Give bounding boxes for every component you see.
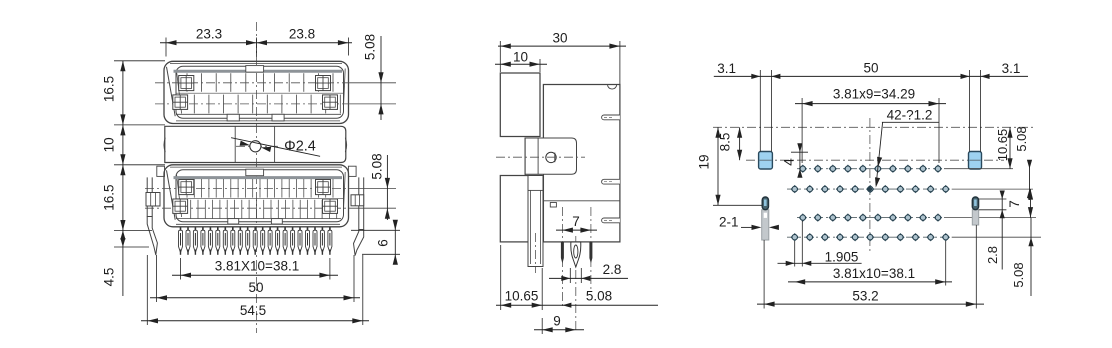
svg-text:2.8: 2.8: [985, 246, 1000, 264]
right bracket crimp block: [351, 195, 364, 206]
dim 7 line: [556, 229, 597, 231]
svg-text:10.65: 10.65: [505, 289, 539, 304]
bottom shell ear right: [348, 166, 356, 176]
tick 4 top: [791, 151, 808, 153]
left dim column vertical line: [122, 61, 124, 296]
nut boss centerline: [496, 156, 585, 158]
dim 54.5 line: [141, 320, 369, 322]
tick 4.5 bottom: [114, 246, 149, 248]
jackscrew hole leader line: [231, 138, 320, 157]
dim 23.8 right extension line: [347, 38, 349, 56]
hole row 1 solid extension: [944, 168, 1013, 170]
plate small square detail: [550, 203, 556, 208]
hole row 2 solid extension: [952, 188, 1033, 190]
bottom shell outer bottom inner line: [176, 223, 340, 225]
svg-text:3.81x9=34.29: 3.81x9=34.29: [833, 87, 915, 102]
front leg centerline: [535, 233, 537, 273]
bottom shell latch block upper-right: [316, 180, 331, 195]
svg-text:10: 10: [102, 137, 117, 152]
top shell latch block upper-right: [316, 76, 331, 91]
tick 19 bottom: [713, 204, 762, 206]
top shell inner shroud: [176, 66, 344, 118]
top shell lower contact ticks: [193, 95, 195, 114]
bottom shell right taper edge: [343, 172, 345, 213]
svg-text:5.08: 5.08: [586, 289, 612, 304]
svg-text:4.5: 4.5: [102, 268, 117, 287]
hole row 4 centerline: [787, 236, 952, 238]
plate inner horizontal line: [543, 200, 620, 202]
middle band boss divider right: [274, 126, 276, 162]
top shell upper contact row centerline: [155, 82, 350, 84]
jackscrew D-hole: [546, 152, 556, 162]
svg-text:50: 50: [248, 280, 263, 295]
dim 10.65 right vertical: [1009, 127, 1011, 168]
hole row 3 holes: [799, 213, 807, 221]
svg-text:3.1: 3.1: [717, 61, 736, 76]
bottom shell latch block upper-left: [179, 180, 194, 195]
bottom shell left taper edge: [167, 170, 176, 219]
left mounting bracket arm: [147, 177, 152, 216]
dim 3.81x10=38.1 line: [788, 281, 952, 283]
right bracket board-lock hook: [354, 230, 364, 256]
ext leg right: [541, 268, 543, 310]
plate contact bump bottom: [602, 218, 620, 223]
dim 5.08 bottom-shell vertical line: [386, 155, 388, 220]
svg-text:5.08: 5.08: [370, 153, 385, 179]
datum hole center row2: [868, 187, 872, 191]
bottom shell latch block lower-left: [173, 199, 188, 213]
bottom shell lower contact ticks: [190, 200, 192, 219]
side view front block upper: [500, 73, 540, 137]
ext 53.2 right: [975, 225, 977, 309]
top shell outer bottom inner line: [176, 120, 340, 122]
bottom shell upper contact ticks: [186, 179, 188, 198]
svg-text:30: 30: [552, 31, 567, 46]
middle band right bulge: [345, 138, 346, 153]
footprint pad centerline: [746, 159, 1004, 161]
svg-text:23.3: 23.3: [196, 27, 222, 42]
svg-text:16.5: 16.5: [102, 184, 117, 210]
bottom shell ear left: [157, 166, 165, 176]
plate contact bump middle: [602, 179, 620, 184]
svg-text:53.2: 53.2: [852, 289, 878, 304]
top shell outer body: [164, 61, 349, 123]
dim 2.8 line: [549, 277, 628, 279]
svg-text:5.08: 5.08: [1014, 126, 1029, 151]
mounting pad right: [969, 152, 982, 170]
dim 6 vertical line: [394, 222, 396, 263]
left bracket crimp block: [146, 193, 160, 207]
tick 10/16.5 boundary: [114, 164, 165, 166]
svg-text:9: 9: [553, 314, 561, 329]
wishbone press-fit pin: [571, 242, 581, 267]
dim 3.81X10=38.1 line: [172, 274, 338, 276]
jackscrew hole circle: [250, 141, 261, 152]
svg-text:2.8: 2.8: [603, 262, 622, 277]
side view mounting plate: [543, 85, 620, 242]
bottom shell inner bottom ledge: [176, 218, 341, 220]
dim 50 line: [150, 297, 360, 299]
ext 10.65 left: [500, 245, 502, 310]
svg-text:5.08: 5.08: [363, 34, 378, 60]
side view front block lower: [500, 176, 541, 242]
pin centerline 2 wishbone: [575, 236, 577, 333]
mounting pad left: [759, 152, 773, 170]
tick 4.5 top: [114, 230, 152, 232]
ext 38.1 right: [945, 241, 947, 286]
side pin 3: [589, 242, 592, 264]
dim 5.08 top-right vertical line: [380, 36, 382, 120]
top shell latch block upper-left: [179, 76, 194, 91]
tick oval bottom: [979, 209, 1007, 211]
front leg inner lines: [530, 190, 532, 264]
bottom shell bottom tab left: [228, 219, 239, 224]
nut boss left strip: [524, 138, 526, 176]
side pin 1: [561, 242, 564, 264]
middle band boss divider left: [234, 126, 236, 162]
tick oval top: [979, 198, 1007, 200]
bottom shell inner shroud: [176, 170, 344, 222]
ext 54.5 left: [146, 255, 148, 325]
right oval pin pad: [972, 197, 978, 210]
tick 16.5 top: [114, 60, 165, 62]
svg-text:7: 7: [1007, 200, 1022, 208]
tick 16.5/10 boundary: [114, 124, 165, 126]
footprint top reference centerline: [713, 126, 1036, 128]
ext last pin: [329, 258, 331, 280]
top shell polarization notch: [246, 66, 264, 73]
ext first pin: [180, 258, 182, 280]
left pin leg phantom: [762, 210, 769, 240]
ext 9 left: [541, 318, 543, 334]
plate top corner notch arc: [608, 85, 617, 90]
dim 5.08 right-top vertical: [1029, 160, 1031, 200]
ext 50 left: [156, 255, 158, 302]
top shell upper contact ticks: [186, 73, 188, 92]
svg-text:54.5: 54.5: [240, 303, 266, 318]
bottom shell upper contact row centerline: [145, 187, 350, 189]
dim 5.08 right-bottom vertical: [1030, 218, 1032, 296]
ext 10 right: [539, 59, 541, 72]
plate contact bump top: [602, 115, 620, 120]
dim center extension line: [256, 38, 258, 57]
top shell notch side ticks: [245, 73, 247, 92]
top shell insulator shelf: [174, 70, 343, 73]
dim 9 line: [534, 329, 584, 331]
jackscrew nut boss: [525, 138, 577, 174]
top shell outer top inner edge line: [170, 63, 342, 65]
dim 4 vertical: [799, 146, 801, 169]
top shell latch block lower-left: [173, 95, 188, 110]
ext 34.29 left: [801, 98, 803, 163]
ext 30 right: [619, 41, 621, 84]
bottom shell inner left taper: [177, 175, 182, 217]
top shell inner bottom ledge: [176, 113, 341, 115]
ext 50 right: [353, 255, 355, 302]
dim 1.905: [778, 262, 862, 264]
hole row 2 centerline: [787, 188, 952, 190]
middle band horizontal centerline: [236, 145, 278, 147]
top shell left taper edge: [167, 67, 176, 116]
hole row 3 centerline: [797, 217, 944, 219]
dim 10 line: [495, 63, 547, 65]
ext 2.8 right: [580, 268, 582, 283]
hole row 4 holes: [791, 233, 799, 241]
bottom shell lower contact row centerline: [145, 207, 350, 209]
dim 23.3 left extension line: [165, 38, 167, 57]
left bracket board-lock hook: [147, 217, 157, 256]
bottom shell insulator shelf: [174, 176, 343, 179]
svg-text:1.905: 1.905: [825, 250, 859, 265]
svg-text:10: 10: [513, 50, 528, 65]
svg-text:4: 4: [782, 158, 797, 166]
top shell inter-row line: [176, 92, 343, 94]
middle band left bulge: [164, 138, 165, 153]
dim 8.5 vertical: [739, 127, 741, 160]
svg-text:5.08: 5.08: [1011, 262, 1026, 287]
hole row 3 solid extension: [944, 217, 1036, 219]
footprint vertical centerline: [869, 118, 871, 252]
dim line top of footprint: [714, 75, 1028, 77]
front press leg: [528, 176, 543, 267]
pin centerline 3: [590, 207, 592, 292]
hole row 1 centerline: [797, 168, 944, 170]
right mounting bracket arm: [359, 177, 364, 229]
dim 30 line: [498, 45, 626, 47]
dim 19 vertical: [717, 127, 719, 205]
svg-text:Φ2.4: Φ2.4: [284, 139, 316, 155]
middle band body: [165, 126, 346, 162]
svg-text:16.5: 16.5: [102, 76, 117, 102]
top shell bottom tab right: [272, 114, 284, 121]
bottom shell outer body: [164, 165, 349, 227]
bottom shell outer top inner edge line: [170, 166, 342, 168]
top shell lower contact row centerline: [155, 103, 350, 105]
svg-text:3.81X10=38.1: 3.81X10=38.1: [215, 259, 299, 274]
ext 54.5 right: [362, 255, 364, 325]
svg-text:50: 50: [863, 61, 878, 76]
ext 2.8 left: [569, 268, 571, 283]
bottom shell inter-row line: [176, 198, 343, 200]
right pin leg phantom: [972, 210, 978, 225]
dim 2.8 right vertical: [1001, 192, 1003, 270]
tick 6 bottom: [362, 253, 400, 255]
front leg step line: [528, 189, 543, 191]
svg-text:42-?1.2: 42-?1.2: [887, 108, 933, 123]
ext 1.905 right: [801, 221, 803, 267]
dim 7 right vertical: [1030, 189, 1032, 218]
top shell latch block lower-right: [323, 95, 338, 110]
svg-text:23.8: 23.8: [289, 27, 315, 42]
pad centerline over pads: [760, 159, 772, 161]
dim 3.81x9=34.29 line: [795, 103, 946, 105]
ext 1.905 left: [794, 241, 796, 267]
dim 10.65 and 5.08 line: [496, 304, 658, 306]
front view vertical centerline: [256, 22, 258, 333]
ext pad-left right edge: [770, 70, 772, 152]
svg-text:2-1: 2-1: [719, 215, 739, 230]
ext pad-right left edge: [969, 70, 971, 152]
pin centerline 1: [561, 207, 563, 308]
svg-text:6: 6: [376, 239, 391, 247]
ext pad-right right edge: [980, 70, 982, 152]
ext 53.2 left: [763, 240, 765, 309]
ext 30 left: [499, 41, 501, 72]
bottom shell latch block lower-right: [323, 199, 338, 213]
tick 6 top: [351, 229, 400, 231]
top shell inner left taper: [177, 72, 182, 114]
hole row 2 holes: [791, 185, 799, 193]
svg-text:19: 19: [697, 154, 712, 169]
hole row 4 solid extension: [952, 236, 1041, 238]
left oval pin pad: [762, 197, 768, 210]
ext pad-left left edge: [759, 70, 761, 152]
top shell bottom tab left: [227, 114, 239, 121]
bottom shell polarization notch: [246, 169, 264, 176]
svg-text:3.1: 3.1: [1002, 61, 1021, 76]
svg-text:10.65: 10.65: [995, 129, 1010, 162]
dim 23.3 / 23.8 dimension line: [160, 42, 352, 44]
dim 53.2 line: [757, 303, 984, 305]
top shell right taper edge: [343, 69, 345, 110]
hole row 1 holes: [799, 165, 807, 173]
svg-text:3.81x10=38.1: 3.81x10=38.1: [833, 266, 915, 281]
solder pin row (21 pins): [180, 227, 182, 230]
bottom shell bottom tab right: [271, 219, 282, 224]
ext 34.29 right: [938, 98, 940, 163]
svg-text:7: 7: [572, 214, 580, 229]
